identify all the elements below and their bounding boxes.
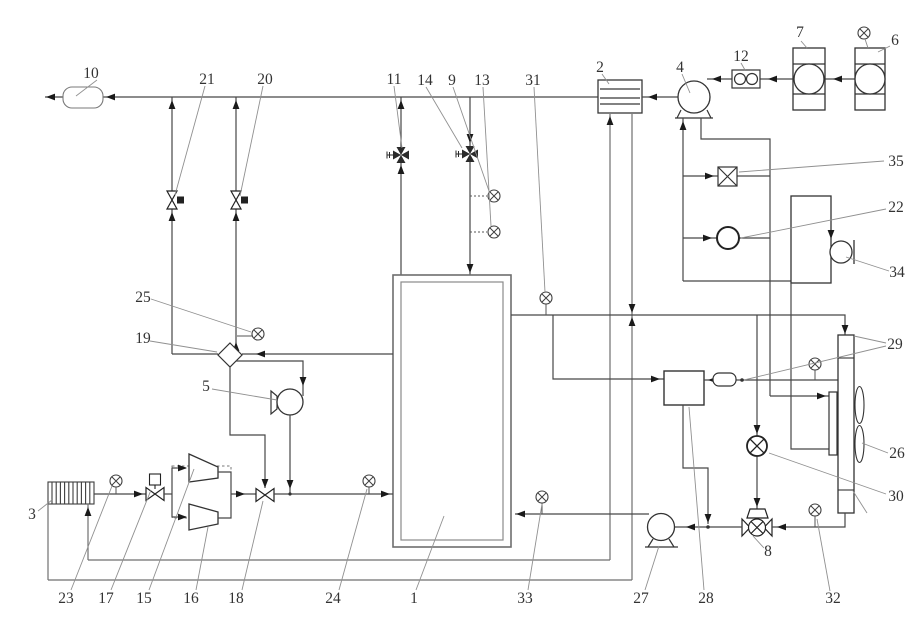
arrow right into box 28	[651, 376, 660, 383]
arrow down on riser x=632 at y=315 junction	[629, 304, 636, 313]
leader 31	[534, 87, 545, 292]
turbine 16	[189, 504, 218, 530]
wire riser x=470	[469, 97, 471, 275]
wire riser x=401	[400, 97, 402, 275]
leader 13	[483, 87, 491, 226]
arrow down into valve 8	[754, 498, 761, 507]
svg-text:8: 8	[764, 543, 772, 560]
pump 30	[747, 436, 767, 456]
svg-text:16: 16	[183, 590, 199, 607]
arrow up into main line x=236	[233, 100, 240, 109]
arrow up into fan 4	[680, 121, 687, 130]
arrow up into main line x=172	[169, 100, 176, 109]
leader 22	[741, 209, 886, 238]
junction drain at x=708	[706, 525, 710, 529]
wire bottom header line y=281	[683, 280, 791, 282]
wire capsule line y=380	[704, 379, 838, 381]
pump 27 base	[645, 539, 678, 547]
leader 7	[801, 41, 807, 48]
arrow up into HX 2	[607, 116, 614, 125]
leader 14	[426, 87, 462, 148]
wire riser x=172	[172, 97, 236, 354]
pump 22	[717, 227, 739, 249]
svg-text:29: 29	[887, 336, 903, 353]
sensor at radiator inlet	[809, 358, 821, 370]
wire mixer bottom bypass to valve 18	[230, 367, 265, 488]
valve 17 stem	[154, 485, 156, 489]
wire HX2 riser x=632	[631, 114, 633, 580]
leader 6	[878, 46, 890, 52]
arrow right into pump 22	[703, 235, 712, 242]
filter 35	[718, 167, 737, 186]
svg-text:9: 9	[448, 72, 456, 89]
svg-text:7: 7	[796, 24, 804, 41]
leader 26	[862, 443, 888, 453]
arrow right toward valve 17	[134, 491, 143, 498]
fan blade lower	[855, 426, 864, 463]
wire dotted stub to sensor 13b	[470, 231, 487, 233]
sensor 23 stem	[115, 487, 117, 494]
svg-text:20: 20	[257, 71, 273, 88]
coil box 29	[829, 392, 837, 455]
valve 8 actuator	[747, 509, 768, 518]
svg-text:30: 30	[888, 488, 904, 505]
valve 9	[456, 146, 478, 162]
wire fan 4 suction drop x=683	[682, 118, 684, 281]
svg-text:23: 23	[58, 590, 74, 607]
wire line to tank 1 left port	[274, 493, 393, 495]
leader 30	[769, 453, 886, 494]
arrow left toward fan 4	[712, 76, 721, 83]
arrow down into valve 18	[262, 479, 269, 488]
air unit box	[791, 196, 831, 283]
svg-text:31: 31	[525, 72, 541, 89]
radiator 26 top header line	[838, 357, 854, 359]
leader 16	[196, 527, 208, 590]
arrow left into tank 1 right port	[516, 511, 525, 518]
sensor 31	[540, 292, 552, 304]
fan blade upper	[855, 387, 864, 424]
svg-text:4: 4	[676, 59, 684, 76]
leader 27	[645, 546, 659, 590]
leader 9	[453, 87, 489, 191]
wire fan 4 second drop to x=770	[701, 118, 770, 396]
valve 17 actuator	[150, 474, 161, 485]
leader 10	[76, 80, 97, 96]
wire air unit drop x=791	[791, 283, 829, 449]
fan 34	[830, 241, 852, 263]
wire line y=79	[707, 78, 855, 80]
wire box 28 drain	[683, 405, 708, 524]
arrow left into pump 7	[833, 76, 842, 83]
leader 1	[416, 516, 444, 590]
radiator 26 bottom header line	[838, 489, 854, 491]
svg-text:24: 24	[325, 590, 341, 607]
wire bottom return line y=560	[88, 559, 610, 561]
arrow left end of main line	[46, 94, 55, 101]
arrow right into filter 35	[705, 173, 714, 180]
tank 1 outer	[393, 275, 511, 547]
wire valve 8 to pump 27	[675, 526, 742, 528]
wire coil feed y=396	[770, 395, 829, 397]
svg-text:19: 19	[135, 330, 151, 347]
arrow down drain into line	[705, 514, 712, 523]
leader 26 extra	[853, 491, 867, 513]
leader 4	[682, 74, 690, 93]
leader 17	[111, 490, 151, 590]
wire radiator drop x=88	[87, 504, 89, 560]
pump 5	[277, 389, 303, 415]
wire radiator outlet to valve 8	[772, 513, 845, 527]
leader 8	[753, 536, 764, 548]
arrow up into valve 21	[169, 212, 176, 221]
svg-text:33: 33	[517, 590, 533, 607]
svg-text:21: 21	[199, 71, 215, 88]
pump 5 inlet wedge	[271, 391, 277, 414]
arrow into turbine 15	[178, 465, 187, 472]
leader 18	[242, 501, 263, 590]
arrow down pump 5 discharge	[287, 480, 294, 489]
turbine unit dashed boundary	[172, 466, 231, 518]
wire stub to sensor 25	[237, 335, 252, 337]
leader 21	[175, 86, 205, 195]
arrow left into HX 2	[648, 94, 657, 101]
svg-text:26: 26	[889, 445, 905, 462]
leader 28	[689, 407, 704, 590]
wire riser x=236	[235, 97, 237, 349]
leader 11	[394, 86, 402, 148]
arrow down into pump 30	[754, 425, 761, 434]
leader 12	[741, 63, 745, 70]
arrow left into gauge 12	[768, 76, 777, 83]
radiator 3	[48, 482, 94, 504]
wire main top line left tip	[45, 96, 63, 98]
arrow right after turbines	[236, 491, 245, 498]
arrow up into main line x=401	[398, 100, 405, 109]
junction dot right of capsule	[740, 378, 744, 382]
sensor at radiator inlet stem	[814, 370, 816, 380]
svg-text:27: 27	[633, 590, 649, 607]
arrow up into valve 20	[233, 212, 240, 221]
arrow up into radiator 3	[85, 507, 92, 516]
fan 4	[678, 81, 710, 113]
arrow left toward mixer 19	[256, 351, 265, 358]
wire dotted stub to sensor 13a	[470, 195, 487, 197]
valve 8	[742, 519, 772, 536]
wire turbine feed line y=494	[94, 493, 146, 495]
arrow left into box 28	[708, 377, 717, 384]
arrow up into valve 11	[398, 165, 405, 174]
wire valve 17 to turbine unit	[164, 493, 172, 495]
arrow right into tank 1	[381, 491, 390, 498]
svg-text:3: 3	[28, 506, 36, 523]
svg-text:2: 2	[596, 59, 604, 76]
sensor above pump 6	[858, 27, 870, 39]
arrow up into mixer 19	[233, 342, 240, 351]
fan 34 shroud	[853, 240, 855, 264]
svg-text:34: 34	[889, 264, 905, 281]
tank 1 inner	[401, 282, 503, 540]
sensor 25	[252, 328, 264, 340]
wire mixer to pump 5 suction	[236, 361, 303, 396]
leader 25	[151, 299, 251, 332]
wire HX2 to fan 4	[642, 96, 678, 98]
arrow down into fan 34	[828, 230, 835, 239]
wire line y=354 from tank 1 to mixer	[242, 353, 393, 355]
leader 29 long	[744, 346, 886, 380]
leader 5	[212, 389, 277, 400]
sensor 33 stem	[541, 503, 543, 514]
pump 7	[793, 48, 825, 110]
valve 20	[231, 191, 248, 209]
wire branch y=238 to pump 22	[683, 237, 770, 239]
silencer 10	[63, 87, 103, 108]
sensor 32	[809, 504, 821, 516]
leader 24	[339, 489, 367, 590]
svg-text:15: 15	[136, 590, 152, 607]
leader 20	[240, 86, 263, 196]
wire branch to expansion box 28	[553, 315, 664, 379]
sensor 13	[488, 226, 500, 238]
capsule fitting	[713, 373, 736, 386]
leader 29 short	[854, 336, 886, 343]
pump 27	[648, 514, 675, 541]
sensor 33	[536, 491, 548, 503]
valve 21	[167, 191, 184, 209]
arrow down into radiator 26 header	[842, 325, 849, 334]
heat exchanger 2	[598, 80, 642, 113]
wire drop x=757	[756, 315, 758, 509]
svg-text:13: 13	[474, 72, 490, 89]
arrow left into pump 27	[686, 524, 695, 531]
svg-text:5: 5	[202, 378, 210, 395]
arrow left into valve 8	[777, 524, 786, 531]
wire pump 27 to tank 1 y=513	[515, 513, 649, 515]
box 28	[664, 371, 704, 405]
mixer diamond 19	[218, 343, 242, 367]
sensor 23	[110, 475, 122, 487]
arrow into silencer 10	[106, 94, 115, 101]
leader 3	[38, 500, 52, 511]
junction pump 5 line	[288, 492, 291, 495]
svg-text:35: 35	[888, 153, 904, 170]
wire bottom return line y=580	[48, 579, 632, 581]
wire hot supply line y=315	[511, 315, 845, 335]
leader 32	[817, 519, 830, 591]
sensor stem to pump 6	[865, 39, 868, 48]
wire branch y=176 to filter 35	[683, 175, 770, 177]
pump 6	[855, 48, 885, 110]
wire turbine outlet header	[218, 472, 256, 518]
svg-text:17: 17	[98, 590, 114, 607]
svg-text:32: 32	[825, 590, 841, 607]
wire HX2 riser x=610	[609, 114, 611, 560]
wire main top line	[103, 96, 598, 98]
wire stub mixer left to riser x=172	[172, 353, 218, 355]
gauge 12	[732, 70, 760, 88]
svg-text:18: 18	[228, 590, 244, 607]
arrow down toward valve 9	[467, 134, 474, 143]
wire radiator drop x=48	[47, 504, 49, 580]
radiator 26 casing	[838, 335, 854, 513]
valve 11	[387, 147, 409, 163]
sensor (label 9 leader target)	[488, 190, 500, 202]
sensor 24 stem	[368, 487, 370, 494]
sensor 32 stem	[814, 516, 816, 527]
arrow into turbine 16	[178, 514, 187, 521]
wire pump 5 discharge down	[289, 415, 291, 494]
sensor 24	[363, 475, 375, 487]
fan 4 base	[675, 110, 713, 118]
svg-text:25: 25	[135, 289, 151, 306]
leader 15	[149, 469, 194, 590]
svg-text:14: 14	[417, 72, 433, 89]
valve 17	[146, 488, 164, 501]
leader 35	[739, 161, 884, 172]
leader 19	[150, 341, 217, 352]
svg-text:11: 11	[387, 71, 402, 88]
arrow down into pump 5	[300, 377, 307, 386]
turbine 15	[189, 454, 218, 482]
svg-text:22: 22	[888, 199, 904, 216]
svg-text:12: 12	[733, 48, 749, 65]
svg-text:1: 1	[410, 590, 418, 607]
svg-text:28: 28	[698, 590, 714, 607]
svg-text:10: 10	[83, 65, 99, 82]
arrow down into box 1 top	[467, 264, 474, 273]
leader 2	[602, 74, 609, 84]
leader 33	[528, 504, 542, 590]
svg-text:6: 6	[891, 32, 899, 49]
leader 34	[846, 257, 889, 271]
wire turbine inlet header	[172, 468, 186, 517]
leader 23	[71, 486, 112, 590]
valve 18	[256, 489, 274, 502]
sensor 31 stem	[545, 304, 547, 315]
arrow right into coil 30	[817, 393, 826, 400]
arrow up on riser x=632 below y=315 junction	[629, 317, 636, 326]
